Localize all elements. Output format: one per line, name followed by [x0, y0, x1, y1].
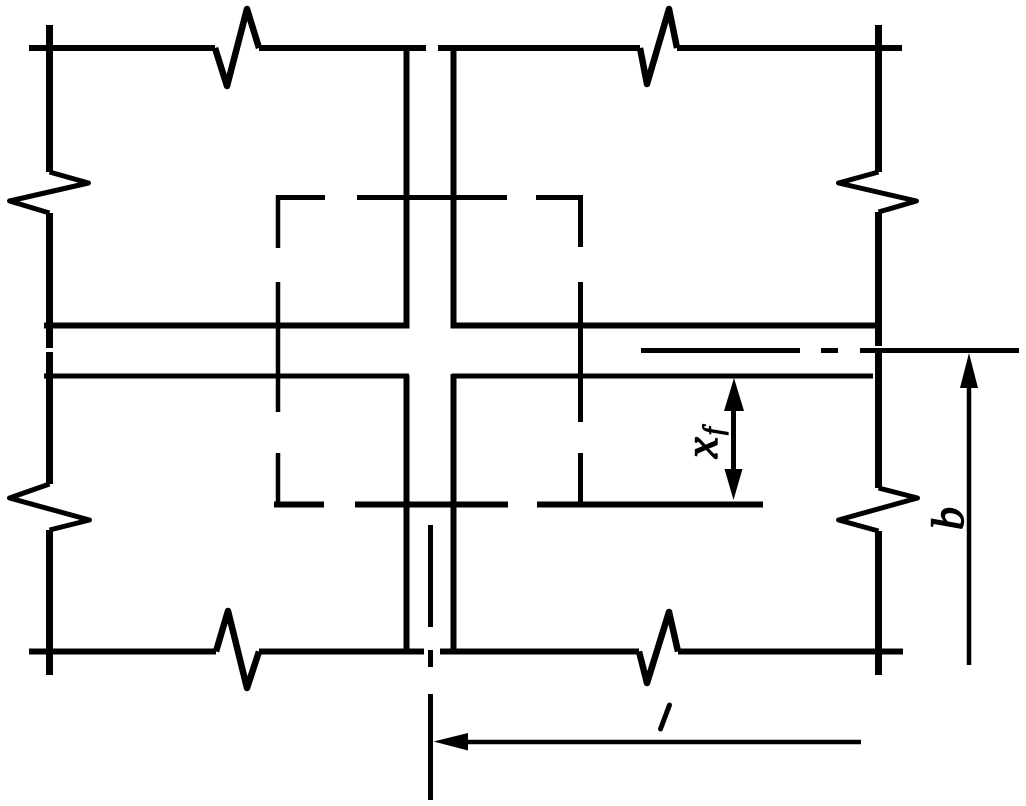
svg-text:b: b — [922, 507, 973, 530]
svg-text:x: x — [676, 437, 728, 459]
